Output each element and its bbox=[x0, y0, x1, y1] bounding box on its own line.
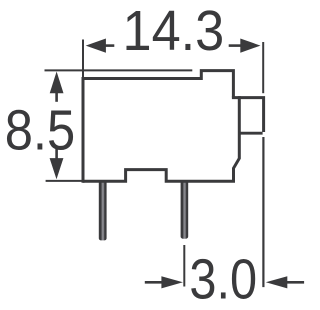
14.3 dimension line left tail bbox=[105, 44, 114, 47]
8.5 dimension line upper tail bbox=[55, 93, 58, 102]
body outline bottom with notch and right chamfer bbox=[83, 96, 239, 181]
3.0 right arrowhead bbox=[266, 276, 288, 288]
3.0 dimension line right tail bbox=[286, 281, 304, 284]
8.5 down arrowhead bbox=[50, 158, 64, 179]
body outline left/top bbox=[83, 71, 233, 183]
svg-text:3.0: 3.0 bbox=[189, 247, 257, 310]
14.3 dimension line right tail bbox=[229, 44, 241, 47]
8.5 bottom extension line bbox=[46, 180, 82, 182]
tab divider bbox=[239, 132, 262, 135]
svg-text:14.3: 14.3 bbox=[122, 0, 224, 63]
14.3 right extension line bbox=[262, 42, 264, 93]
pin 1 (left lead) bbox=[99, 180, 107, 240]
3.0 dimension line left tail bbox=[145, 281, 162, 284]
svg-text:8.5: 8.5 bbox=[5, 98, 76, 162]
8.5 dimension line lower tail bbox=[55, 148, 58, 159]
tab top and right edge bbox=[232, 98, 264, 132]
body lid seam line (8.5 top extension) bbox=[45, 69, 193, 71]
3.0 left extension line bbox=[183, 245, 185, 287]
14.3 right arrowhead bbox=[240, 39, 260, 53]
pin 2 (right lead) bbox=[181, 180, 189, 239]
3.0 right extension line (below tab) bbox=[262, 137, 264, 287]
3.0 left arrowhead bbox=[161, 276, 183, 288]
14.3 left arrowhead bbox=[86, 39, 106, 53]
14.3 left extension line bbox=[82, 40, 84, 78]
8.5 up arrowhead bbox=[50, 72, 64, 94]
